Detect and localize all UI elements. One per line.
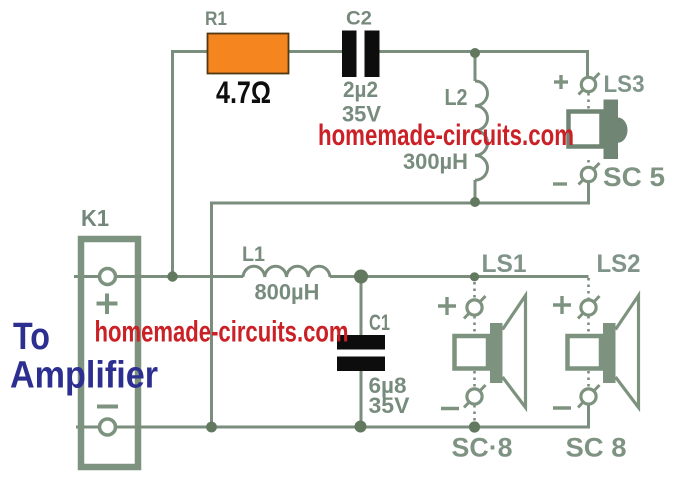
svg-text:SC 5: SC 5	[603, 162, 665, 192]
svg-text:LS2: LS2	[597, 250, 641, 278]
svg-text:homemade-circuits.com: homemade-circuits.com	[95, 316, 349, 349]
svg-text:L2: L2	[445, 84, 468, 110]
svg-text:SC 8: SC 8	[566, 433, 627, 463]
svg-text:homemade-circuits.com: homemade-circuits.com	[318, 119, 574, 152]
svg-text:35V: 35V	[369, 393, 410, 418]
svg-text:L1: L1	[242, 242, 265, 266]
svg-text:Amplifier: Amplifier	[10, 355, 158, 397]
svg-text:K1: K1	[81, 205, 109, 231]
svg-text:300µH: 300µH	[403, 149, 468, 174]
svg-text:To: To	[13, 316, 50, 358]
svg-text:LS3: LS3	[604, 71, 645, 98]
svg-text:LS1: LS1	[482, 250, 527, 278]
svg-text:SC·8: SC·8	[452, 433, 513, 463]
svg-text:4.7Ω: 4.7Ω	[216, 74, 271, 110]
svg-text:C2: C2	[346, 8, 372, 30]
svg-text:C1: C1	[369, 310, 390, 335]
svg-text:2µ2: 2µ2	[343, 77, 378, 102]
svg-text:R1: R1	[205, 8, 227, 30]
svg-text:800µH: 800µH	[255, 280, 320, 305]
